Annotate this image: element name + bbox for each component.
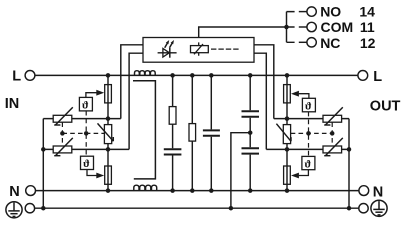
sense wire left nodeB to box (129, 53, 143, 149)
svg-text:N: N (373, 184, 383, 200)
wire PE vertical right (348, 119, 350, 209)
node PE-left-bottom (41, 206, 46, 211)
choke winding top L1 (135, 71, 156, 76)
wire L line (35, 74, 358, 76)
fuse right lower F4 (284, 166, 291, 184)
node PE-right-rowB (347, 147, 352, 152)
capacitor C1 (164, 149, 182, 154)
node Y-top (248, 73, 253, 78)
varistor right vertical (L-N) (276, 124, 291, 144)
mech link left thermal chain (85, 111, 87, 156)
terminal PE left (25, 204, 34, 213)
svg-text:OUT: OUT (370, 98, 401, 114)
thermal sensor right lower (291, 156, 315, 178)
node mech-right-theta (306, 131, 311, 136)
fuse right upper F3 (284, 85, 291, 103)
svg-text:L: L (373, 69, 382, 85)
terminal N right (359, 186, 369, 196)
node RC-bottom (170, 188, 175, 193)
svg-text:ϑ: ϑ (83, 158, 90, 170)
node contact-COM (284, 25, 289, 30)
node PE-right-bottom (347, 206, 352, 211)
wire row B right (266, 148, 349, 150)
node C2-bottom (209, 188, 214, 193)
svg-text:14: 14 (359, 3, 375, 19)
mech link right horizontal (291, 132, 333, 134)
wire PE line (35, 207, 359, 209)
node mech-right-var (330, 131, 335, 136)
varistor left top (L-PE) (53, 107, 73, 125)
wire relay to contacts (199, 27, 287, 38)
terminal COM (307, 22, 316, 31)
varistor right bottom (N-PE) (323, 138, 343, 156)
choke core link (133, 81, 155, 179)
fuse left upper F1 (105, 85, 112, 103)
node A left (106, 116, 111, 121)
varistor left vertical (L-N) (98, 123, 114, 143)
svg-text:NC: NC (320, 35, 340, 51)
node mech-left-var (60, 131, 65, 136)
sense wire left nodeA to box (121, 45, 143, 119)
earth symbol left (6, 202, 22, 218)
contact NO stub (299, 11, 307, 13)
wire row A left (43, 118, 121, 120)
wire N line (36, 190, 359, 192)
wire branch Y-caps (249, 75, 251, 190)
capacitor C4 (242, 148, 260, 153)
node branch-left-N (106, 188, 111, 193)
mech link right thermal chain (308, 112, 310, 157)
node Ymid-PE (229, 206, 234, 211)
wire PE vertical left (42, 119, 44, 209)
contact COM stub (299, 26, 307, 28)
wire row A right (274, 118, 349, 120)
status box (143, 38, 254, 63)
thermal sensor left lower (81, 156, 105, 178)
node Y-mid (248, 130, 253, 135)
contact bracket (287, 12, 295, 43)
mech link left varistor chain (61, 122, 63, 146)
wire branch X-cap (210, 75, 212, 190)
svg-text:ϑ: ϑ (305, 100, 312, 112)
fuse left lower F2 (105, 166, 112, 184)
terminal L left (25, 71, 35, 81)
svg-text:ϑ: ϑ (82, 100, 89, 112)
node mech-left-theta (84, 131, 89, 136)
terminal L right (358, 71, 368, 81)
node branch-right-L (285, 73, 290, 78)
varistor left bottom (N-PE) (53, 138, 73, 156)
wire row B left (43, 148, 129, 150)
svg-text:L: L (12, 69, 21, 85)
node branch-right-N (285, 188, 290, 193)
resistor R2 (189, 124, 196, 142)
choke winding bottom L2 (134, 185, 157, 190)
svg-text:N: N (9, 184, 19, 200)
svg-text:12: 12 (360, 35, 376, 51)
terminal PE right (359, 204, 368, 213)
node RC-top (170, 73, 175, 78)
capacitor C3 (242, 111, 260, 116)
resistor R1 (169, 107, 176, 125)
LED D1 (158, 40, 177, 58)
node Y-bottom (248, 188, 253, 193)
sense wire right nodeB to box (254, 53, 266, 149)
wire branch bleeder (191, 75, 193, 190)
node branch-left-L (106, 73, 111, 78)
svg-text:IN: IN (5, 96, 20, 112)
thermal sensor left upper (79, 90, 104, 112)
svg-text:COM: COM (321, 19, 354, 35)
svg-text:ϑ: ϑ (305, 158, 312, 170)
contact NC stub (299, 41, 307, 43)
relay coil K1 (191, 42, 239, 55)
node B right (285, 147, 290, 152)
node C2-top (209, 73, 214, 78)
node A right (285, 116, 290, 121)
svg-text:NO: NO (320, 3, 341, 19)
thermal sensor right upper (291, 91, 315, 113)
varistor right top (L-PE) (323, 107, 343, 125)
terminal N left (26, 186, 36, 196)
node R2-top (190, 73, 195, 78)
wire branch right (286, 75, 288, 190)
earth symbol right (371, 200, 387, 216)
node PE-left-rowB (41, 147, 46, 152)
sense wire right nodeA to box (254, 45, 274, 119)
terminal NC (307, 38, 316, 47)
node B left (106, 147, 111, 152)
svg-text:11: 11 (360, 19, 375, 35)
mech link left horizontal (62, 132, 104, 134)
mech link right varistor chain (331, 122, 333, 146)
terminal NO (307, 7, 316, 16)
wire branch left (107, 75, 109, 190)
wire branch RC snubber (172, 75, 174, 190)
capacitor C2 (203, 130, 220, 135)
node R2-bottom (190, 188, 195, 193)
wire Y-mid to PE (231, 133, 250, 209)
